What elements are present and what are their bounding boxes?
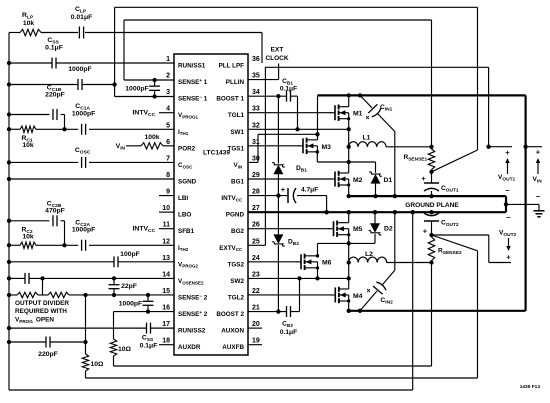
svg-text:SW2: SW2 [230, 278, 244, 285]
svg-text:16: 16 [162, 305, 170, 312]
svg-text:LBI: LBI [178, 195, 188, 202]
svg-text:32: 32 [252, 122, 260, 129]
svg-text:SFB1: SFB1 [178, 228, 195, 235]
svg-text:19: 19 [252, 338, 260, 345]
svg-text:L2: L2 [365, 251, 373, 258]
svg-text:M6: M6 [322, 260, 332, 267]
svg-text:25: 25 [252, 238, 260, 245]
svg-text:22: 22 [252, 288, 260, 295]
svg-text:−: − [505, 186, 510, 195]
svg-text:220pF: 220pF [45, 92, 65, 99]
svg-text:5: 5 [166, 122, 170, 129]
svg-text:BOOST 2: BOOST 2 [216, 311, 244, 318]
svg-text:12: 12 [162, 238, 170, 245]
svg-text:M5: M5 [353, 226, 363, 233]
svg-text:27: 27 [252, 205, 260, 212]
svg-text:+: + [506, 253, 511, 262]
svg-text:1000pF: 1000pF [72, 111, 95, 118]
svg-text:4: 4 [166, 106, 170, 113]
svg-text:SGND: SGND [178, 178, 197, 185]
svg-text:+: + [536, 148, 541, 157]
svg-text:28: 28 [252, 189, 260, 196]
svg-text:GROUND PLANE: GROUND PLANE [405, 202, 459, 209]
svg-text:100k: 100k [144, 134, 159, 141]
svg-text:1439 F13: 1439 F13 [520, 384, 541, 390]
svg-text:D2: D2 [384, 226, 393, 233]
svg-text:SENSE+ 1: SENSE+ 1 [178, 78, 208, 86]
svg-text:D1: D1 [384, 177, 393, 184]
svg-text:−: − [506, 213, 511, 222]
svg-text:20: 20 [252, 321, 260, 328]
svg-text:LTC1439: LTC1439 [203, 150, 230, 157]
svg-text:×: × [365, 115, 369, 122]
svg-text:30: 30 [252, 155, 260, 162]
svg-text:21: 21 [252, 305, 260, 312]
svg-text:3: 3 [166, 89, 170, 96]
svg-text:2: 2 [166, 73, 170, 80]
svg-text:10k: 10k [22, 142, 34, 149]
svg-text:8: 8 [166, 172, 170, 179]
svg-text:PLL LPF: PLL LPF [219, 63, 245, 70]
svg-text:1000pF: 1000pF [125, 86, 148, 93]
svg-text:M3: M3 [322, 144, 332, 151]
svg-text:+: + [421, 174, 426, 183]
svg-text:SENSE+ 2: SENSE+ 2 [178, 310, 208, 318]
svg-text:SENSE− 1: SENSE− 1 [178, 95, 208, 103]
svg-text:AUXFB: AUXFB [222, 344, 244, 351]
svg-text:9: 9 [166, 189, 170, 196]
svg-text:1000pF: 1000pF [68, 66, 91, 73]
svg-text:M1: M1 [353, 111, 363, 118]
svg-text:29: 29 [252, 172, 260, 179]
svg-text:AUXON: AUXON [221, 328, 244, 335]
svg-text:24: 24 [252, 255, 260, 262]
svg-text:35: 35 [252, 73, 260, 80]
svg-text:SENSE− 2: SENSE− 2 [178, 294, 208, 302]
svg-text:TGS1: TGS1 [228, 145, 245, 152]
svg-text:26: 26 [252, 222, 260, 229]
svg-text:33: 33 [252, 106, 260, 113]
svg-text:TGS2: TGS2 [228, 261, 245, 268]
svg-text:7: 7 [166, 155, 170, 162]
svg-text:0.01μF: 0.01μF [71, 14, 93, 21]
svg-text:PGND: PGND [226, 212, 245, 219]
svg-text:6: 6 [166, 139, 170, 146]
svg-text:+: + [423, 227, 428, 236]
svg-text:13: 13 [162, 255, 170, 262]
svg-text:M4: M4 [353, 293, 363, 300]
svg-text:×: × [366, 288, 370, 295]
svg-text:BG1: BG1 [231, 178, 244, 185]
svg-text:OUTPUT DIVIDER: OUTPUT DIVIDER [15, 300, 69, 307]
svg-text:14: 14 [162, 271, 170, 278]
svg-text:REQUIRED WITH: REQUIRED WITH [15, 308, 67, 315]
svg-text:1000pF: 1000pF [119, 301, 142, 308]
svg-text:RUN/SS2: RUN/SS2 [178, 328, 206, 335]
svg-text:+: + [505, 148, 510, 157]
svg-text:10k: 10k [23, 20, 35, 27]
svg-text:SW1: SW1 [230, 129, 244, 136]
svg-text:BOOST 1: BOOST 1 [216, 96, 244, 103]
svg-text:TGL1: TGL1 [228, 112, 245, 119]
svg-text:34: 34 [252, 89, 260, 96]
svg-text:POR2: POR2 [178, 145, 196, 152]
svg-text:22pF: 22pF [121, 283, 137, 290]
svg-text:+: + [281, 185, 286, 194]
svg-text:CLOCK: CLOCK [265, 55, 288, 62]
svg-text:M2: M2 [353, 177, 363, 184]
svg-text:L1: L1 [363, 135, 371, 142]
svg-text:10Ω: 10Ω [118, 346, 132, 353]
svg-text:18: 18 [162, 338, 170, 345]
svg-text:31: 31 [252, 139, 260, 146]
svg-text:TGL2: TGL2 [228, 294, 245, 301]
svg-text:1: 1 [166, 56, 170, 63]
svg-text:0.1μF: 0.1μF [280, 86, 297, 93]
svg-text:−: − [536, 192, 541, 201]
svg-text:EXT: EXT [271, 47, 284, 54]
svg-text:0.1μF: 0.1μF [280, 329, 297, 336]
svg-text:11: 11 [163, 222, 171, 229]
svg-text:1000pF: 1000pF [72, 227, 95, 234]
svg-text:17: 17 [162, 321, 170, 328]
svg-text:470pF: 470pF [45, 208, 65, 215]
svg-text:BG2: BG2 [231, 228, 244, 235]
svg-text:AUXDR: AUXDR [178, 344, 201, 351]
svg-text:10: 10 [162, 205, 170, 212]
svg-text:0.1μF: 0.1μF [140, 343, 158, 350]
svg-text:15: 15 [162, 288, 170, 295]
svg-text:100pF: 100pF [120, 251, 140, 258]
svg-text:RUN/SS1: RUN/SS1 [178, 63, 206, 70]
svg-text:23: 23 [252, 271, 260, 278]
svg-text:PLLIN: PLLIN [226, 79, 245, 86]
svg-text:10k: 10k [22, 234, 34, 241]
svg-text:36: 36 [252, 56, 260, 63]
svg-text:10Ω: 10Ω [91, 361, 105, 368]
svg-text:LBO: LBO [178, 212, 191, 219]
svg-text:220pF: 220pF [38, 351, 58, 358]
svg-text:0.1μF: 0.1μF [45, 45, 63, 52]
svg-text:4.7μF: 4.7μF [301, 187, 318, 194]
